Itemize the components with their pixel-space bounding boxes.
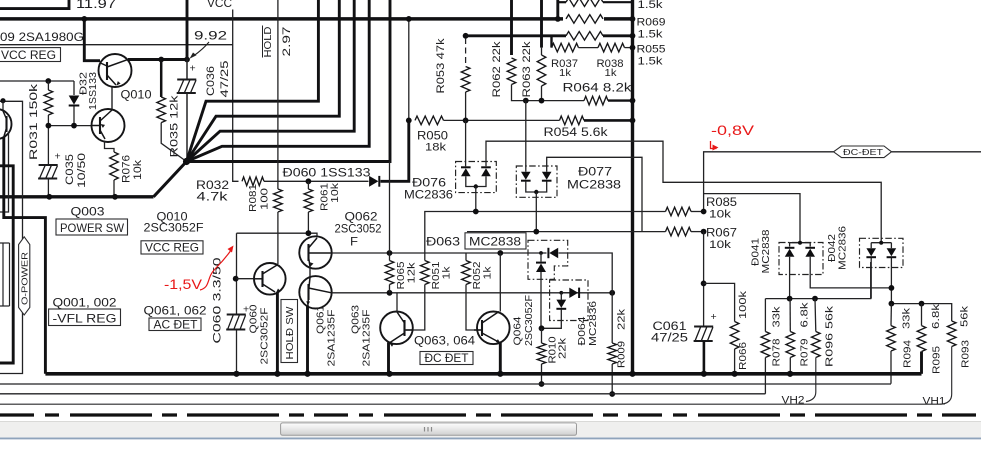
wire thin box right edge bbox=[233, 10, 239, 182]
capacitor C036 bbox=[186, 60, 188, 80]
label VCC REG box 1 bbox=[0, 48, 61, 62]
svg-text:VCC: VCC bbox=[207, 0, 232, 10]
resistor R053 (dashed feed) bbox=[463, 33, 469, 39]
flag DC-DET bbox=[834, 146, 892, 158]
wire R067 row bbox=[467, 231, 666, 233]
svg-text:33k: 33k bbox=[901, 307, 913, 329]
svg-text:18k: 18k bbox=[425, 142, 447, 154]
resistor R032 bbox=[242, 177, 264, 186]
wire Q010 base feed bbox=[84, 19, 100, 61]
wire Q010 emitter to Q009 bbox=[111, 88, 113, 110]
svg-text:R085: R085 bbox=[706, 196, 737, 209]
svg-text:MC2838: MC2838 bbox=[567, 178, 621, 192]
resistor R063 bbox=[540, 0, 543, 48]
svg-text:R062 22k: R062 22k bbox=[491, 41, 503, 98]
svg-text:Q063, 064: Q063, 064 bbox=[414, 334, 475, 348]
wire Q001 base stub bbox=[0, 132, 9, 212]
svg-text:2SC3052: 2SC3052 bbox=[335, 222, 382, 236]
svg-text:MC2836: MC2836 bbox=[837, 226, 849, 270]
svg-text:R064 8.2k: R064 8.2k bbox=[563, 81, 633, 95]
resistor R081 bbox=[277, 0, 279, 189]
wire fan line 4 bbox=[187, 0, 355, 162]
diode D064d bbox=[560, 293, 562, 300]
svg-text:Ð077: Ð077 bbox=[578, 165, 612, 179]
wire DC-DET line bbox=[704, 152, 834, 212]
svg-text:MC2838: MC2838 bbox=[760, 229, 772, 273]
svg-text:1k: 1k bbox=[605, 67, 618, 79]
resistor R050 bbox=[415, 116, 444, 125]
resistor R069 bbox=[566, 15, 603, 24]
resistor R038 bbox=[598, 43, 625, 52]
svg-text:22k: 22k bbox=[616, 308, 628, 330]
diode D060 bbox=[369, 176, 378, 187]
node star junction bbox=[183, 158, 190, 165]
svg-text:VCC REG: VCC REG bbox=[145, 240, 199, 254]
schematic frame dash-dot line bbox=[0, 413, 981, 416]
wire Q001 emitter thick L bbox=[4, 137, 46, 374]
svg-text:1k: 1k bbox=[441, 266, 453, 280]
svg-text:Q001, 002: Q001, 002 bbox=[53, 296, 117, 310]
svg-text:R035 12k: R035 12k bbox=[169, 95, 181, 158]
transistor Q063 (DC DET) bbox=[380, 312, 413, 345]
resistor R051 bbox=[421, 261, 430, 285]
wire base rail y=125.6 bbox=[48, 125, 92, 127]
resistor R052 bbox=[462, 261, 471, 285]
svg-text:1.5k: 1.5k bbox=[638, 56, 664, 68]
svg-text:POWER SW: POWER SW bbox=[60, 221, 124, 235]
wire C060 branch bbox=[236, 233, 238, 313]
wire VCC bus y=18.9 bbox=[0, 17, 563, 21]
transistor Q062 upper bbox=[299, 236, 331, 268]
wire Q064 emitter bbox=[499, 343, 502, 374]
svg-text:2SC3052F: 2SC3052F bbox=[259, 308, 271, 365]
label VCC REG box 2 bbox=[141, 241, 203, 254]
wire R085 row bbox=[425, 212, 666, 254]
svg-text:Ð063: Ð063 bbox=[426, 235, 460, 249]
resistor 1.5k top bbox=[566, 0, 603, 7]
svg-text:100: 100 bbox=[259, 188, 271, 210]
svg-text:10/50: 10/50 bbox=[76, 153, 88, 188]
label AC DET box bbox=[149, 318, 201, 331]
svg-text:12k: 12k bbox=[406, 262, 418, 284]
svg-text:HOLÐ SW: HOLÐ SW bbox=[284, 306, 296, 359]
svg-text:4.7k: 4.7k bbox=[197, 190, 229, 204]
svg-text:C035: C035 bbox=[64, 154, 76, 185]
svg-text:ÐC-ÐET: ÐC-ÐET bbox=[843, 147, 884, 157]
wire emitter rail y=292.8 bbox=[332, 292, 613, 294]
wire x=703.6 bbox=[703, 232, 705, 327]
diode D064c bbox=[559, 291, 563, 295]
svg-text:R066: R066 bbox=[737, 342, 749, 370]
svg-text:Q064: Q064 bbox=[512, 316, 524, 345]
svg-text:100k: 100k bbox=[737, 290, 749, 319]
transistor Q064 bbox=[477, 312, 510, 345]
svg-text:MC2836: MC2836 bbox=[404, 188, 453, 202]
svg-text:HOLD: HOLD bbox=[262, 26, 274, 57]
label POWER SW box bbox=[56, 219, 128, 235]
resistor R035 bbox=[160, 60, 163, 98]
wire Q063 dc collector bbox=[396, 293, 398, 312]
svg-text:2.97: 2.97 bbox=[281, 27, 293, 57]
svg-text:ÐC ÐET: ÐC ÐET bbox=[425, 351, 470, 365]
wire VCC vertical x=187 bbox=[186, 0, 189, 60]
svg-text:-1,5V: -1,5V bbox=[164, 277, 202, 292]
svg-text:09 2SA1980G: 09 2SA1980G bbox=[0, 30, 84, 44]
svg-text:R063 22k: R063 22k bbox=[521, 41, 533, 98]
diode pack D042 MC2836 bbox=[860, 238, 904, 267]
svg-text:R076: R076 bbox=[121, 155, 133, 183]
wire top row y=2.2 bbox=[556, 0, 559, 19]
resistor R096 bbox=[814, 299, 817, 332]
resistor R094 bbox=[890, 304, 892, 326]
resistor R010 bbox=[537, 343, 546, 364]
wire line y=394 bbox=[0, 393, 765, 395]
resistor R066 bbox=[704, 283, 735, 321]
resistor R062 bbox=[510, 0, 513, 55]
svg-text:R081: R081 bbox=[247, 184, 259, 212]
wire fan line 2 bbox=[187, 0, 319, 162]
resistor R085 bbox=[666, 207, 692, 216]
wire rail y=101 bbox=[0, 101, 23, 373]
svg-text:VH1: VH1 bbox=[923, 396, 946, 408]
svg-text:+: + bbox=[190, 63, 196, 75]
svg-text:10k: 10k bbox=[709, 239, 732, 251]
wire Q063 emitter bbox=[306, 306, 309, 374]
svg-text:10k: 10k bbox=[709, 209, 732, 221]
capacitor C035 bbox=[39, 164, 58, 166]
resistor R064 8.2k bbox=[584, 96, 608, 105]
svg-text:2SC3052F: 2SC3052F bbox=[523, 295, 535, 346]
capacitor C061 bbox=[694, 326, 713, 328]
svg-text:6.8k: 6.8k bbox=[930, 303, 942, 329]
wire fan line 5 bbox=[187, 0, 370, 162]
svg-text:56k: 56k bbox=[959, 305, 971, 327]
window edge blue line bbox=[0, 437, 981, 439]
svg-text:VCC REG: VCC REG bbox=[1, 48, 56, 62]
wire diagonal to star node bbox=[154, 162, 187, 197]
label DC DET box bbox=[420, 352, 473, 365]
svg-text:AC ÐET: AC ÐET bbox=[154, 317, 199, 331]
diode pack D076 MC2836 bbox=[456, 162, 497, 193]
resistor R009 bbox=[608, 343, 617, 364]
resistor R061 bbox=[306, 178, 312, 184]
svg-text:R069: R069 bbox=[637, 17, 666, 29]
resistor R095 bbox=[921, 304, 923, 326]
svg-text:C036: C036 bbox=[205, 66, 217, 96]
svg-text:Ð060 1SS133: Ð060 1SS133 bbox=[283, 167, 371, 180]
diode D063a bbox=[549, 248, 558, 258]
svg-text:F: F bbox=[350, 236, 358, 249]
wire Q010 collector bbox=[128, 58, 187, 61]
connector double box left edge bbox=[2, 243, 4, 306]
diode pack D064 bbox=[550, 280, 588, 321]
svg-text:10k: 10k bbox=[132, 159, 144, 180]
svg-text:O-POWER: O-POWER bbox=[19, 252, 29, 305]
wire thin box top edge bbox=[0, 44, 233, 46]
resistor R037 bbox=[552, 43, 579, 52]
wire row y=35.8 bbox=[466, 34, 566, 37]
svg-text:11.97: 11.97 bbox=[76, 0, 116, 11]
svg-text:1.5k: 1.5k bbox=[638, 0, 664, 11]
svg-text:1SS133: 1SS133 bbox=[87, 72, 99, 110]
wire y=303.6 rail bbox=[891, 304, 951, 321]
svg-text:MC2838: MC2838 bbox=[469, 235, 521, 249]
svg-text:R054 5.6k: R054 5.6k bbox=[544, 125, 609, 139]
wire left border L x=13 bbox=[0, 166, 13, 363]
resistor R093 bbox=[947, 321, 956, 347]
transistor Q063 lower bbox=[299, 276, 331, 308]
wire link bbox=[309, 267, 311, 278]
wire main bottom bus bbox=[45, 372, 921, 376]
svg-text:R096 56k: R096 56k bbox=[824, 305, 836, 367]
resistor R065 bbox=[389, 162, 391, 254]
svg-text:2SA1235F: 2SA1235F bbox=[326, 310, 338, 367]
svg-text:+: + bbox=[55, 151, 61, 163]
resistor R078 bbox=[764, 299, 766, 332]
scrollbar track bbox=[0, 422, 981, 438]
svg-text:R053 47k: R053 47k bbox=[435, 38, 447, 94]
svg-text:R093: R093 bbox=[960, 340, 972, 368]
wire 9.92 arrow bbox=[194, 42, 210, 56]
transistor Q060 bbox=[254, 263, 286, 295]
svg-text:Q061, 062: Q061, 062 bbox=[144, 304, 207, 318]
svg-text:R067: R067 bbox=[706, 227, 737, 240]
svg-text:MC2836: MC2836 bbox=[587, 301, 599, 346]
flag O-POWER bbox=[19, 237, 30, 315]
svg-text:Q010: Q010 bbox=[121, 88, 152, 102]
svg-text:-0,8V: -0,8V bbox=[711, 123, 754, 138]
capacitor C060 bbox=[227, 314, 246, 316]
svg-text:R055: R055 bbox=[637, 44, 666, 56]
label HOLD SW box bbox=[281, 300, 298, 363]
svg-text:+: + bbox=[711, 311, 717, 323]
svg-text:47/25: 47/25 bbox=[219, 61, 231, 98]
wire fan line 3 bbox=[187, 0, 340, 162]
diode D32 1SS133 bbox=[73, 81, 75, 95]
resistor R076 bbox=[105, 141, 115, 153]
wire y=193.6 branch bbox=[704, 194, 800, 243]
resistor R067 bbox=[666, 227, 692, 236]
wire y=298.6 rail bbox=[765, 262, 870, 299]
svg-text:R031 150k: R031 150k bbox=[28, 83, 40, 160]
wire Q001 collector bbox=[2, 101, 4, 111]
resistor 1.5k row2 bbox=[566, 32, 603, 41]
wire collector rail y=253 bbox=[332, 252, 547, 254]
svg-text:47/25: 47/25 bbox=[651, 331, 688, 345]
svg-text:-VFL REG: -VFL REG bbox=[53, 311, 117, 325]
svg-text:1k: 1k bbox=[559, 67, 572, 79]
diode pack D063 bbox=[528, 240, 568, 279]
transistor Q010 bbox=[99, 54, 132, 87]
svg-text:1.5k: 1.5k bbox=[638, 29, 664, 41]
resistor R054 5.6k bbox=[560, 116, 585, 125]
svg-text:Q003: Q003 bbox=[71, 205, 105, 219]
svg-text:R095: R095 bbox=[931, 346, 943, 374]
wire bus y=196.8 bbox=[0, 195, 154, 198]
wire D076 right top bbox=[486, 141, 881, 243]
svg-text:R079: R079 bbox=[799, 338, 811, 366]
wire line y=384 bbox=[0, 383, 891, 385]
wire rail y=81 bbox=[0, 80, 74, 82]
svg-text:2SA1235F: 2SA1235F bbox=[361, 310, 373, 367]
diode D063b bbox=[540, 253, 542, 262]
svg-text:10k: 10k bbox=[329, 182, 341, 203]
svg-text:9.92: 9.92 bbox=[194, 28, 227, 42]
diode pack D041 MC2838 bbox=[779, 243, 823, 275]
svg-text:6.8k: 6.8k bbox=[799, 302, 811, 328]
wire D060 to R050 riser bbox=[381, 120, 409, 181]
transistor Q009 2SA1980G bbox=[92, 109, 125, 142]
wire AC-DET base rail y=233.2 bbox=[237, 233, 318, 237]
svg-text:R078: R078 bbox=[771, 338, 783, 366]
svg-text:33k: 33k bbox=[771, 306, 783, 328]
wire main vertical x=632.5 bbox=[631, 0, 634, 374]
label -VFL REG box bbox=[49, 309, 121, 326]
svg-text:2SC3052F: 2SC3052F bbox=[144, 221, 204, 235]
transistor Q001/Q002 (clipped) bbox=[0, 109, 12, 139]
wire Q064 collector bbox=[499, 253, 501, 312]
diode pack D077 MC2838 bbox=[516, 166, 557, 197]
svg-text:R094: R094 bbox=[902, 340, 914, 368]
wire Q060 emitter bbox=[276, 293, 279, 374]
wire riser thin top bbox=[408, 19, 410, 121]
resistor R079 bbox=[789, 299, 791, 332]
wire Q063 dc emitter bbox=[387, 343, 390, 374]
resistor R031 bbox=[47, 81, 49, 90]
svg-text:R009: R009 bbox=[616, 341, 628, 368]
wire top-left box corner bbox=[0, 0, 69, 9]
wire fan line 6 bbox=[187, 0, 391, 162]
svg-text:1k: 1k bbox=[482, 266, 494, 280]
svg-text:22k: 22k bbox=[557, 337, 569, 359]
